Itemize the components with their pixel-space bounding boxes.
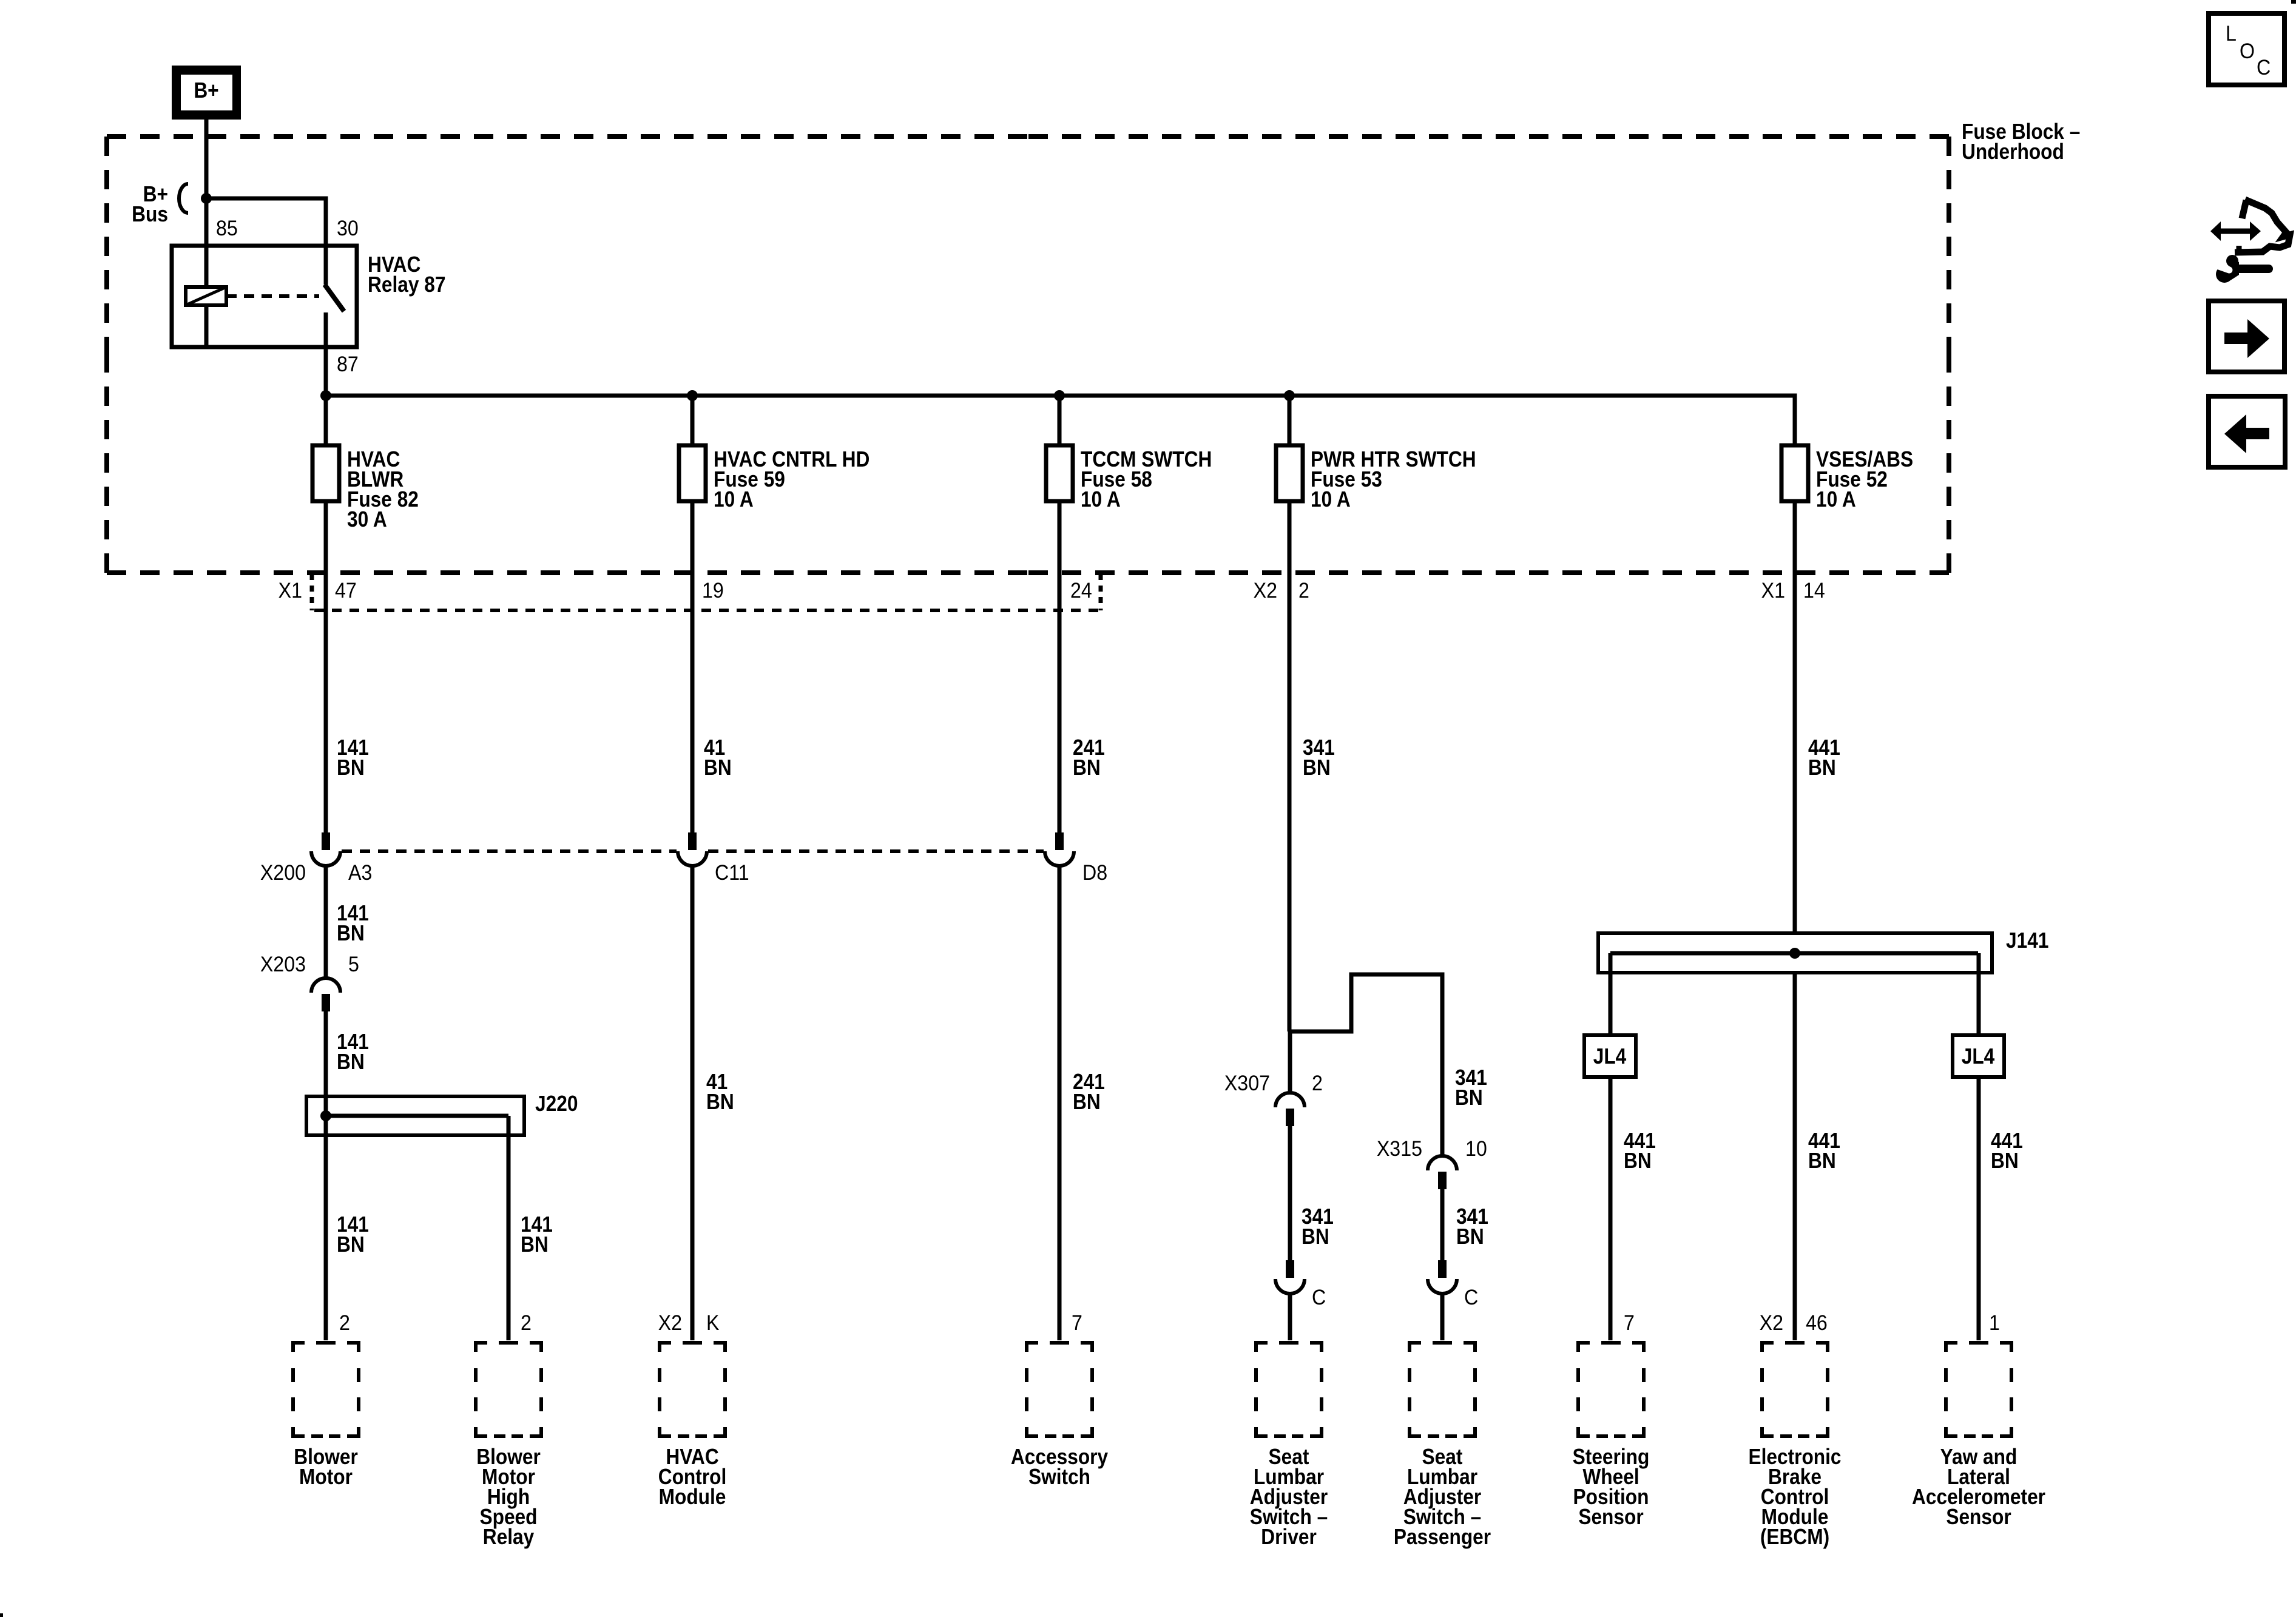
- svg-text:10 A: 10 A: [1311, 487, 1351, 511]
- component box Blower Motor High Speed Relay: [474, 1341, 543, 1438]
- svg-text:BN: BN: [337, 921, 365, 945]
- label fuse F53: [1311, 447, 1476, 511]
- component box Yaw and Lateral Accelerometer Sensor: [1944, 1341, 2013, 1438]
- svg-text:BN: BN: [1073, 1090, 1101, 1114]
- svg-text:2: 2: [339, 1312, 350, 1335]
- power symbol B+: [172, 66, 241, 120]
- label Accessory Switch: [1011, 1445, 1108, 1489]
- svg-text:BN: BN: [1808, 1149, 1836, 1173]
- component box Seat Lumbar Adjuster Switch Driver: [1254, 1341, 1323, 1438]
- label wire 141 BN segment 2: [337, 901, 369, 945]
- svg-text:30: 30: [337, 217, 359, 241]
- wire J220 to blower motor high speed relay: [507, 1116, 511, 1340]
- relay U1 HVAC Relay 87 box: [172, 246, 357, 347]
- label Steering Wheel Position Sensor: [1573, 1445, 1650, 1529]
- svg-text:14: 14: [1803, 579, 1825, 603]
- svg-text:X307: X307: [1224, 1072, 1270, 1096]
- fuse F82 HVAC: [312, 445, 339, 501]
- wire J141 right drop: [1977, 953, 1981, 1035]
- svg-text:24: 24: [1070, 579, 1092, 603]
- label HVAC Control Module: [658, 1445, 727, 1509]
- wire bus to fuse F53: [1288, 396, 1292, 445]
- wire circuit 41 fuse 59 to C11: [690, 501, 695, 832]
- svg-text:J220: J220: [535, 1092, 578, 1116]
- connector X307 pin 2: [1275, 1093, 1305, 1126]
- svg-text:O: O: [2240, 40, 2255, 64]
- svg-text:BN: BN: [1302, 1224, 1329, 1249]
- wire relay 87 to bus: [324, 347, 328, 396]
- connector C11: [678, 832, 707, 866]
- connector X1 bar dashed line: [314, 609, 1103, 612]
- svg-text:L: L: [2226, 22, 2237, 46]
- wire branch step to X315: [1289, 974, 1442, 1156]
- arrow box left: [2209, 396, 2285, 467]
- svg-text:(EBCM): (EBCM): [1760, 1525, 1829, 1549]
- wire circuit 141 fuse 82 to X200: [324, 501, 328, 832]
- svg-text:X203: X203: [260, 953, 306, 977]
- svg-text:Relay 87: Relay 87: [368, 272, 446, 297]
- wire X307 to C: [1288, 1126, 1292, 1260]
- svg-text:X2: X2: [1254, 579, 1277, 603]
- svg-text:C11: C11: [715, 862, 749, 885]
- svg-text:BN: BN: [1303, 755, 1331, 780]
- svg-text:X315: X315: [1377, 1138, 1422, 1161]
- bus wire from relay to fuse 52: [326, 396, 1795, 445]
- svg-text:C: C: [1312, 1286, 1326, 1310]
- svg-text:Module: Module: [659, 1485, 726, 1509]
- fuse F53 PWR HTR SWTCH: [1276, 445, 1303, 501]
- page corner mark bottom left: [0, 1613, 3, 1617]
- connector D8: [1045, 832, 1074, 866]
- label Blower Motor: [294, 1445, 358, 1489]
- component box Steering Wheel Position Sensor: [1576, 1341, 1646, 1438]
- svg-text:Bus: Bus: [132, 202, 168, 226]
- svg-text:BN: BN: [337, 755, 365, 780]
- svg-text:10 A: 10 A: [714, 487, 754, 511]
- connector C driver: [1275, 1260, 1305, 1294]
- fuse F59 HVAC CNTRL HD: [679, 445, 706, 501]
- svg-text:Switch: Switch: [1028, 1465, 1090, 1489]
- svg-text:7: 7: [1624, 1312, 1635, 1335]
- label Electronic Brake Control Module EBCM: [1748, 1445, 1841, 1549]
- label wire 441 BN yaw: [1991, 1129, 2023, 1173]
- svg-text:K: K: [706, 1312, 720, 1335]
- harness dashed link X200: [342, 849, 677, 853]
- node B+ Bus: [132, 182, 188, 226]
- svg-text:BN: BN: [1073, 755, 1101, 780]
- svg-text:2: 2: [1312, 1072, 1323, 1096]
- svg-text:Sensor: Sensor: [1946, 1505, 2011, 1529]
- wire bus to fuse F59: [690, 396, 695, 445]
- connector X315 pin 10: [1428, 1156, 1457, 1189]
- label wire 41 BN: [704, 735, 732, 780]
- svg-text:X2: X2: [1760, 1312, 1783, 1335]
- wire bus to fuse F82: [324, 396, 328, 445]
- svg-text:B+: B+: [194, 78, 218, 103]
- svg-text:85: 85: [216, 217, 238, 241]
- svg-text:1: 1: [1989, 1312, 2000, 1335]
- wire X200 to X203: [324, 866, 328, 978]
- service icon wrench and arrow: [2207, 200, 2290, 283]
- wire C11 to HVAC control module: [690, 866, 695, 1340]
- wire C to seat lumbar driver switch: [1288, 1294, 1292, 1340]
- label fuse F52: [1816, 447, 1913, 511]
- wire bus to fuse F58: [1058, 396, 1062, 445]
- label Seat Lumbar Adjuster Switch Passenger: [1394, 1445, 1491, 1549]
- svg-text:A3: A3: [348, 862, 372, 885]
- component box Accessory Switch: [1025, 1341, 1094, 1438]
- svg-text:C: C: [2257, 56, 2271, 80]
- svg-text:10: 10: [1465, 1138, 1487, 1161]
- wire D8 to accessory switch: [1058, 866, 1062, 1340]
- wire J141 left drop: [1609, 953, 1613, 1035]
- svg-text:BN: BN: [1624, 1149, 1652, 1173]
- svg-text:87: 87: [337, 353, 359, 377]
- connector X1 separator: [310, 574, 314, 610]
- label wire 41 BN segment 2: [706, 1070, 734, 1114]
- wire relay pin 30 stub: [324, 246, 328, 285]
- label wire 441 BN steering: [1624, 1129, 1656, 1173]
- junction dot B+ bus: [201, 193, 212, 204]
- svg-text:J141: J141: [2006, 928, 2048, 953]
- label fuse F82: [347, 447, 419, 532]
- label fuse F59: [714, 447, 869, 511]
- LOC legend box: [2209, 13, 2284, 85]
- svg-text:Underhood: Underhood: [1962, 140, 2064, 164]
- svg-text:Passenger: Passenger: [1394, 1525, 1491, 1549]
- component box HVAC Control Module: [658, 1341, 727, 1438]
- svg-text:BN: BN: [706, 1090, 734, 1114]
- svg-text:Driver: Driver: [1261, 1525, 1317, 1549]
- svg-text:BN: BN: [1991, 1149, 2019, 1173]
- label wire 141 BN to relay: [521, 1212, 553, 1257]
- svg-text:46: 46: [1806, 1312, 1828, 1335]
- label wire 341 BN passenger: [1456, 1204, 1488, 1249]
- label wire 441 BN: [1808, 735, 1840, 780]
- svg-text:Sensor: Sensor: [1578, 1505, 1643, 1529]
- relay coil: [186, 287, 226, 305]
- wire circuit 441 fuse 52 to J141: [1793, 501, 1797, 933]
- label Fuse Block - Underhood: [1962, 120, 2080, 164]
- relay switch blade: [325, 285, 344, 311]
- label wire 341 BN: [1303, 735, 1335, 780]
- svg-text:X1: X1: [1761, 579, 1785, 603]
- wire coil to relay box bottom: [204, 305, 209, 347]
- label wire 441 BN EBCM: [1808, 1129, 1840, 1173]
- svg-text:5: 5: [348, 953, 359, 977]
- label wire 141 BN: [337, 735, 369, 780]
- label wire 141 BN to blower motor: [337, 1212, 369, 1257]
- splice pack J141: [1598, 933, 1992, 973]
- wire JL4 to steering wheel position sensor: [1609, 1077, 1613, 1340]
- junction dot bus at fuse 58: [1054, 390, 1065, 401]
- wire X315 to C: [1440, 1189, 1445, 1260]
- fuse F52 VSES/ABS: [1781, 445, 1808, 501]
- svg-text:D8: D8: [1082, 862, 1107, 885]
- connector X203 pin 5: [311, 978, 340, 1011]
- wire C to seat lumbar passenger switch: [1440, 1294, 1445, 1340]
- fuse block underhood boundary: [107, 137, 1949, 573]
- junction dot bus at fuse 82: [320, 390, 331, 401]
- svg-text:47: 47: [335, 579, 357, 603]
- label fuse F58: [1081, 447, 1212, 511]
- component box Seat Lumbar Adjuster Switch Passenger: [1408, 1341, 1477, 1438]
- svg-text:BN: BN: [521, 1232, 549, 1257]
- junction JL4 right: [1953, 1035, 2004, 1077]
- wire to X307: [1288, 1031, 1292, 1093]
- fuse F58 TCCM SWTCH: [1046, 445, 1073, 501]
- wire J141 to EBCM: [1793, 973, 1797, 1340]
- label wire 241 BN: [1073, 735, 1105, 780]
- splice pack J220: [306, 1096, 524, 1135]
- label Yaw and Lateral Accelerometer Sensor: [1912, 1445, 2045, 1529]
- svg-text:BN: BN: [1455, 1085, 1483, 1110]
- component box Blower Motor: [291, 1341, 360, 1438]
- wire X203 to blower motor: [324, 1011, 328, 1340]
- connector X200 pin A3: [311, 832, 340, 866]
- svg-text:7: 7: [1072, 1312, 1082, 1335]
- svg-text:Relay: Relay: [483, 1525, 535, 1549]
- label Blower Motor High Speed Relay: [476, 1445, 541, 1549]
- svg-text:BN: BN: [1808, 755, 1836, 780]
- svg-text:2: 2: [521, 1312, 532, 1335]
- relay actuation dashed link: [226, 294, 319, 298]
- wire JL4 to yaw sensor: [1977, 1077, 1981, 1340]
- junction dot bus at fuse 53: [1284, 390, 1295, 401]
- junction JL4 left: [1584, 1035, 1636, 1077]
- label Seat Lumbar Adjuster Switch Driver: [1250, 1445, 1328, 1549]
- connector C passenger: [1428, 1260, 1457, 1294]
- label HVAC Relay 87: [368, 252, 446, 297]
- svg-text:BN: BN: [704, 755, 732, 780]
- svg-text:BN: BN: [337, 1050, 365, 1074]
- wire circuit 241 fuse 58 to D8: [1058, 501, 1062, 832]
- svg-text:10 A: 10 A: [1081, 487, 1121, 511]
- svg-text:2: 2: [1298, 579, 1309, 603]
- label wire 341 BN passenger feed: [1455, 1065, 1487, 1110]
- arrow box right: [2209, 301, 2284, 372]
- svg-text:BN: BN: [1456, 1224, 1484, 1249]
- svg-text:X200: X200: [260, 862, 306, 885]
- junction dot bus at fuse 59: [687, 390, 698, 401]
- svg-text:X1: X1: [279, 579, 302, 603]
- wire relay pin 87 stub: [324, 312, 328, 347]
- svg-text:30 A: 30 A: [347, 507, 387, 532]
- svg-text:10 A: 10 A: [1816, 487, 1856, 511]
- label wire 241 BN segment 2: [1073, 1070, 1105, 1114]
- svg-text:C: C: [1464, 1286, 1478, 1310]
- svg-text:Motor: Motor: [299, 1465, 353, 1489]
- connector X1 separator right: [1099, 574, 1103, 610]
- harness dashed link C11-D8: [708, 849, 1044, 853]
- svg-text:BN: BN: [337, 1232, 365, 1257]
- svg-text:JL4: JL4: [1593, 1044, 1627, 1068]
- label wire 141 BN segment 3: [337, 1030, 369, 1074]
- svg-text:X2: X2: [658, 1312, 682, 1335]
- wire branch to relay pin 30: [206, 198, 326, 246]
- label wire 341 BN driver: [1302, 1204, 1334, 1249]
- wire circuit 341 fuse 53 down: [1288, 501, 1292, 1031]
- svg-text:JL4: JL4: [1962, 1044, 1995, 1068]
- wire B+ to relay coil pin 85: [204, 120, 209, 287]
- component box Electronic Brake Control Module EBCM: [1760, 1341, 1829, 1438]
- page corner mark top right: [2291, 0, 2296, 4]
- svg-text:19: 19: [702, 579, 724, 603]
